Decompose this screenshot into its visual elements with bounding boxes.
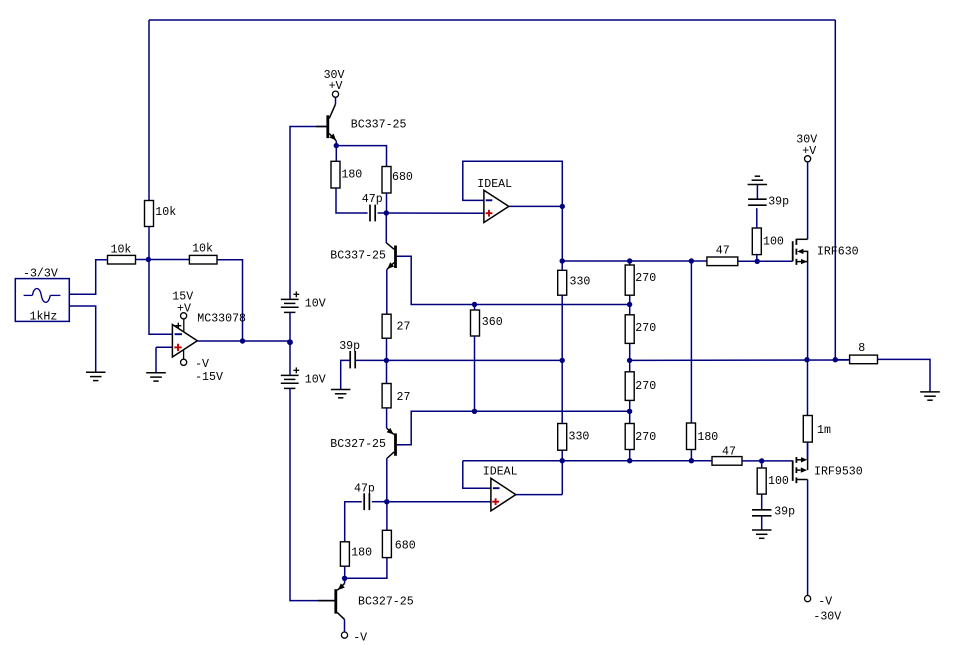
wire opamp output: [197, 340, 290, 342]
resistor R 27 lower: [382, 384, 391, 408]
op-amp -V supply stub: [183, 350, 185, 359]
wire 10k-v to node A: [149, 227, 172, 335]
wire 330 column: [561, 261, 563, 461]
transistor Q2 BC337-25: [386, 243, 405, 270]
svg-text:39p: 39p: [768, 196, 789, 209]
op-amp MC33078 triangle: [172, 325, 197, 358]
wire 680-b bottom to node: [345, 558, 387, 579]
junction output rail dot: [804, 357, 809, 362]
ideal2 minus sign: [493, 487, 500, 489]
svg-text:27: 27: [397, 391, 411, 404]
wire 360 column: [474, 305, 476, 412]
wire ideal1 output: [509, 205, 563, 207]
wire ideal1 loop: [463, 161, 563, 206]
label 10k feedback: [192, 242, 213, 255]
svg-text:100: 100: [768, 475, 789, 488]
label 39p top-right: [768, 196, 789, 209]
junction 47p bottom dot: [384, 499, 389, 504]
svg-text:270: 270: [635, 322, 656, 335]
wire 270 column: [629, 261, 631, 461]
battery B1 plus sign: [293, 291, 299, 297]
wire opamp noninv input: [156, 346, 172, 348]
label 330 bottom: [569, 431, 590, 444]
svg-text:100: 100: [763, 236, 784, 249]
wire Q1 collector stub: [335, 97, 337, 104]
junction rail261 330 dot: [560, 258, 565, 263]
label 47p bottom: [354, 482, 375, 495]
transistor Q3 BC327-25: [387, 428, 405, 459]
label IRF9530: [814, 466, 863, 479]
wire 180t bottom to cap: [336, 188, 368, 213]
svg-text:10k: 10k: [155, 206, 176, 219]
svg-text:10k: 10k: [192, 242, 213, 255]
wire ideal2 output: [516, 494, 563, 496]
label 30V Q1: [324, 69, 345, 82]
resistor R 270 no4: [625, 424, 634, 450]
terminal -V Q4: [341, 632, 347, 638]
label 180 right: [697, 431, 718, 444]
junction battery mid dot: [287, 339, 293, 345]
svg-text:BC327-25: BC327-25: [358, 596, 414, 609]
junction 360 bottom dot: [472, 409, 477, 414]
svg-text:1m: 1m: [817, 424, 831, 437]
svg-text:680: 680: [392, 171, 413, 184]
label 180 bottom: [351, 547, 372, 560]
svg-text:39p: 39p: [774, 506, 795, 519]
ground inverted top-right: [748, 176, 768, 184]
wire IRF9530 source down: [807, 480, 809, 596]
svg-text:10k: 10k: [111, 243, 132, 256]
wire 180r column: [690, 261, 692, 461]
svg-text:330: 330: [569, 431, 590, 444]
wire 47p to ideal1 plus: [378, 212, 484, 214]
wire 39p mid left to ground: [341, 360, 351, 389]
wire Q1 base column: [290, 127, 326, 300]
wire Q2 collector: [397, 256, 630, 304]
wire Q1 emitter node: [335, 141, 337, 161]
op-amp +V supply stub: [175, 319, 184, 332]
svg-text:IDEAL: IDEAL: [483, 466, 518, 479]
label 10V battery1: [305, 297, 326, 310]
junction 360 top dot: [472, 302, 477, 307]
resistor R 180 right: [687, 423, 696, 450]
svg-text:47: 47: [716, 244, 730, 257]
svg-text:270: 270: [635, 380, 656, 393]
wire 39p-tr to ground: [756, 185, 758, 200]
junction feedback rail dot: [833, 357, 838, 362]
svg-text:-3/3V: -3/3V: [23, 268, 58, 281]
wire battery to Q4 base: [290, 388, 334, 600]
label BC327-25 Q4: [358, 596, 414, 609]
wire 47p-b right to junction: [372, 501, 387, 503]
junction rail261 180 dot: [689, 258, 694, 263]
battery B1 10V: [281, 299, 299, 312]
svg-text:680: 680: [395, 540, 416, 553]
label 39p bottom-right: [774, 506, 795, 519]
label 100 bottom: [768, 475, 789, 488]
label 330 top: [570, 276, 591, 289]
ground bottom-right: [752, 530, 772, 538]
junction rail461 330 dot: [560, 458, 565, 463]
ground opamp input: [146, 373, 166, 381]
svg-text:-V: -V: [195, 358, 209, 371]
wire 680-b top: [386, 502, 388, 531]
svg-text:-V: -V: [818, 596, 832, 609]
resistor R 180 top: [331, 161, 340, 188]
junction 47p top dot: [384, 210, 389, 215]
label 10k input: [111, 243, 132, 256]
junction 100b dot: [759, 458, 764, 463]
label 47p top: [362, 193, 383, 206]
wire 1m column: [807, 360, 809, 460]
resistor R 330 top: [558, 270, 567, 295]
label IDEAL bottom: [483, 466, 518, 479]
resistor R 47 top: [707, 257, 738, 266]
capacitor C 47p bottom: [364, 493, 369, 510]
resistor R 270 no2: [625, 315, 634, 344]
svg-text:27: 27: [397, 321, 411, 334]
label BC337-25 Q2: [330, 250, 386, 263]
label 10k vertical: [155, 206, 176, 219]
resistor R 680 top: [382, 167, 391, 194]
junction Q4 collector dot: [342, 576, 347, 581]
wire ideal1 out down: [561, 206, 563, 261]
ground source: [86, 372, 106, 380]
label 270 no3: [635, 380, 656, 393]
wire rail top 261: [562, 260, 707, 262]
label 270 no2: [635, 322, 656, 335]
label 270 no1: [635, 272, 656, 285]
svg-text:360: 360: [482, 316, 503, 329]
transistor M IRF630: [793, 239, 808, 265]
resistor R 360: [471, 310, 480, 336]
resistor R 1m: [803, 416, 812, 443]
ideal1 minus sign: [486, 199, 493, 201]
label 47 top: [716, 244, 730, 257]
svg-text:330: 330: [570, 276, 591, 289]
wire Q2 emitter: [386, 270, 388, 315]
label 15V: [172, 291, 193, 304]
wire mid rail right: [630, 359, 849, 361]
wire Q1 emitter to 680: [336, 146, 386, 167]
resistor R 10k feedback: [189, 255, 217, 264]
op-amp -V terminal: [181, 359, 187, 365]
label +V right: [802, 145, 816, 158]
capacitor C 39p bottom-right: [752, 510, 772, 516]
svg-text:BC327-25: BC327-25: [330, 438, 386, 451]
svg-text:270: 270: [635, 431, 656, 444]
wire Q4 emitter: [344, 619, 346, 631]
op-amp +V terminal: [181, 313, 187, 319]
wire source top stub: [69, 260, 107, 295]
label BC337-25 Q1: [351, 119, 407, 132]
label +V opamp: [177, 303, 191, 316]
label 39p mid: [339, 340, 360, 353]
svg-text:10V: 10V: [305, 373, 326, 386]
label -V Q4: [353, 632, 367, 645]
wire Q3 base down: [386, 459, 388, 502]
junction rail261 270 dot: [627, 258, 632, 263]
capacitor C 47p top: [370, 205, 375, 222]
svg-text:47p: 47p: [362, 193, 383, 206]
junction ideal1 out dot: [560, 204, 565, 209]
wire IRF9530 drain up: [807, 442, 809, 460]
junction rail461 180 dot: [689, 458, 694, 463]
wire 47b to gate: [742, 460, 793, 462]
junction opamp out dot: [240, 338, 245, 343]
resistor R 270 no3: [625, 372, 634, 401]
svg-text:IRF630: IRF630: [817, 246, 859, 259]
junction rail461 270 dot: [627, 458, 632, 463]
svg-text:8: 8: [858, 342, 865, 355]
wire 680t bottom: [386, 193, 388, 213]
resistor R 680 bottom: [382, 530, 391, 557]
terminal +V Q1: [332, 91, 338, 97]
label 270 no4: [635, 431, 656, 444]
wire 39p mid right: [355, 359, 386, 361]
resistor R 100 bottom: [757, 468, 766, 494]
wire mid rail left: [386, 359, 562, 361]
resistor R 180 bottom: [340, 542, 349, 566]
svg-text:47p: 47p: [354, 482, 375, 495]
battery B2 10V: [281, 375, 299, 388]
svg-text:1kHz: 1kHz: [30, 311, 58, 324]
svg-text:MC33078: MC33078: [197, 312, 246, 325]
wire output to 8: [835, 359, 849, 361]
resistor R 330 bottom: [558, 424, 567, 451]
source sine wave: [24, 289, 61, 303]
svg-text:270: 270: [635, 272, 656, 285]
transistor Q4 BC327-25: [318, 578, 345, 619]
svg-text:-V: -V: [353, 632, 367, 645]
label 1m: [817, 424, 831, 437]
svg-text:180: 180: [341, 169, 362, 182]
ground mid 39p: [331, 390, 351, 398]
op-amp U ideal top: [484, 190, 509, 222]
label 680 bottom: [395, 540, 416, 553]
svg-text:BC337-25: BC337-25: [351, 119, 407, 132]
label 27 upper: [397, 321, 411, 334]
junction 270 row2 dot: [627, 302, 632, 307]
wire 180-b bottom to node: [344, 566, 346, 578]
wire 47p-b left to 180: [345, 502, 362, 542]
wire source bottom stub to ground: [69, 306, 95, 372]
capacitor C 39p mid: [350, 351, 355, 368]
label IRF630: [817, 246, 859, 259]
op-amp U ideal bottom: [491, 478, 516, 511]
wire feedback top: [149, 19, 835, 21]
wire 39p-br to ground: [761, 516, 763, 530]
wire 10k feedback to opamp out: [217, 260, 243, 341]
wire 100b leads: [761, 461, 763, 510]
label -V right: [818, 596, 832, 609]
wire IRF630 drain: [807, 162, 809, 239]
label -3/3V: [23, 268, 58, 281]
label 27 lower: [397, 391, 411, 404]
resistor R 270 no1: [625, 265, 634, 295]
node A dot: [146, 257, 151, 262]
svg-text:39p: 39p: [339, 340, 360, 353]
terminal +V IRF630: [805, 156, 811, 162]
junction 330 mid dot: [560, 358, 565, 363]
label 10V battery2: [305, 373, 326, 386]
svg-text:-30V: -30V: [813, 611, 841, 624]
resistor R 8: [850, 355, 878, 364]
wire left rail to source: [136, 259, 190, 261]
terminal -V IRF9530: [805, 596, 811, 602]
wire battery mid: [289, 312, 291, 375]
wire 47p-b to ideal2 plus: [387, 501, 491, 503]
wire 8 to ground: [878, 359, 931, 391]
label 47 bottom: [722, 446, 736, 459]
label -15V: [195, 371, 223, 384]
wire Q3 collector: [397, 411, 630, 445]
label +V Q1: [329, 80, 343, 93]
wire rail bottom 461: [463, 460, 712, 462]
label -V opamp: [195, 358, 209, 371]
wire IRF630 source down: [807, 262, 809, 360]
transistor Q1 BC337-25: [316, 104, 336, 141]
svg-text:BC337-25: BC337-25: [330, 250, 386, 263]
wire ideal2 loop: [463, 461, 563, 495]
resistor R 10k vertical: [145, 201, 154, 227]
wire Q3 emitter: [386, 408, 388, 428]
label 180 top: [341, 169, 362, 182]
label MC33078: [197, 312, 246, 325]
resistor R 47 bottom: [712, 457, 742, 466]
svg-text:IRF9530: IRF9530: [814, 466, 863, 479]
label IDEAL top: [477, 178, 512, 191]
ground output: [920, 392, 940, 400]
op-amp noninv plus sign: [174, 344, 181, 351]
label BC327-25 Q3: [330, 438, 386, 451]
label 100 top: [763, 236, 784, 249]
resistor R 10k input: [108, 255, 136, 264]
junction mid node dot: [384, 358, 389, 363]
wire feedback left vertical: [148, 20, 150, 201]
label 8: [858, 342, 865, 355]
wire 27 upper to mid node: [386, 338, 388, 383]
label -30V: [813, 611, 841, 624]
svg-text:IDEAL: IDEAL: [477, 178, 512, 191]
resistor R 27 upper: [382, 314, 391, 338]
label 30V right: [796, 134, 817, 147]
resistor R 100 top: [752, 228, 761, 255]
junction 270 row4 dot: [627, 409, 632, 414]
ideal2 plus sign: [492, 498, 499, 505]
battery B2 plus sign: [293, 367, 299, 373]
op-amp inv minus sign: [175, 333, 182, 335]
wire 47p junction to Q2 base: [385, 213, 387, 243]
wire 47t to gate: [738, 260, 793, 262]
junction 270 mid dot: [627, 358, 632, 363]
wire feedback right vertical: [834, 20, 836, 359]
label 680 top: [392, 171, 413, 184]
wire 100t leads: [756, 208, 758, 261]
svg-text:180: 180: [697, 431, 718, 444]
junction 100t dot: [755, 259, 760, 264]
label 360: [482, 316, 503, 329]
svg-text:180: 180: [351, 547, 372, 560]
capacitor C 39p top-right: [748, 199, 767, 205]
transistor M IRF9530: [793, 457, 808, 483]
ideal1 plus sign: [486, 210, 493, 217]
svg-text:-15V: -15V: [195, 371, 223, 384]
svg-text:10V: 10V: [305, 297, 326, 310]
svg-text:+V: +V: [177, 303, 191, 316]
svg-text:47: 47: [722, 446, 736, 459]
junction Q1 emitter dot: [334, 143, 339, 148]
wire noninv to ground: [155, 347, 157, 372]
source V1 box: [15, 279, 69, 322]
label 1kHz: [30, 311, 58, 324]
